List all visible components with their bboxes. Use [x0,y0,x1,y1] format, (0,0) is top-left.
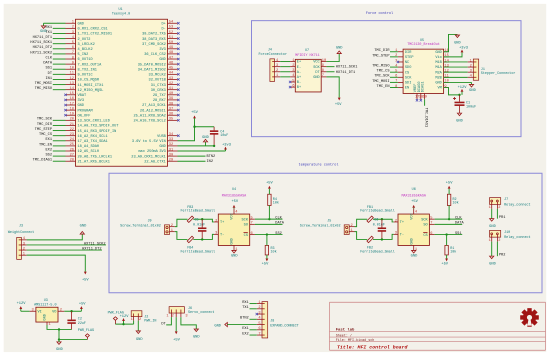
svg-text:28_RX7: 28_RX7 [153,99,166,103]
power +5V at U1 VIN [191,111,198,119]
svg-text:35_DAT0_MOSI2: 35_DAT0_MOSI2 [138,63,166,67]
svg-text:EX1: EX1 [46,138,52,142]
junction at C6 top [381,218,383,220]
capacitor C1 100uF [453,95,476,113]
svg-text:2: 2 [395,219,397,223]
svg-text:TMC_SCK: TMC_SCK [37,118,53,122]
wire J6 pin2 to +5V [175,317,177,331]
svg-text:3V3: 3V3 [78,99,84,103]
svg-text:10_CS_MQSR: 10_CS_MQSR [78,79,100,83]
wire U1 pin7 HX711_SCK2 [53,53,66,55]
wire U6 SO DATA [435,223,463,225]
connector J3 WeightConnect [8,225,34,260]
svg-text:31_CTX3: 31_CTX3 [151,84,166,88]
junction CLK/R4 [268,218,270,220]
svg-text:TMC_SCK: TMC_SCK [374,75,390,79]
junction SS2/R3 [266,233,268,235]
wire +5V branch to C4 [195,126,215,128]
power +12V at J2 [120,315,130,324]
svg-text:3: 3 [292,69,294,73]
wire U1 pin29 IN2 [178,160,206,162]
svg-text:SDI: SDI [405,82,411,86]
svg-text:M1A: M1A [435,66,442,70]
svg-text:100uF: 100uF [466,106,476,110]
svg-text:GND: GND [489,262,496,266]
svg-text:CLK: CLK [275,216,282,220]
svg-text:2: 2 [292,64,294,68]
svg-text:15: 15 [444,54,448,58]
svg-text:0.01uF: 0.01uF [193,223,205,227]
svg-text:0.01uF: 0.01uF [373,223,385,227]
wire U7 SCK [326,66,334,68]
svg-text:0_RX1_CRX2_CS1: 0_RX1_CRX2_CS1 [78,28,108,32]
resistor R3 10k [265,235,276,259]
svg-text:+5V: +5V [262,263,269,267]
svg-text:5: 5 [72,41,74,45]
svg-text:IN2: IN2 [207,160,213,164]
power +5V above R2 [446,181,453,188]
svg-text:38: 38 [169,102,173,106]
wire U1 pin8 CLK [53,58,66,60]
junction at C4 bottom [213,145,215,147]
svg-text:13_SCK_CRX1_LED: 13_SCK_CRX1_LED [78,120,110,124]
power +5V above U6 [411,200,418,209]
svg-text:D+: D+ [161,22,165,26]
svg-text:25: 25 [70,143,74,147]
ground below C1 [456,113,463,124]
svg-text:27: 27 [70,153,74,157]
svg-text:TMC_DIR: TMC_DIR [37,123,53,127]
svg-text:23: 23 [70,133,74,137]
svg-text:J10: J10 [504,231,510,235]
junction at U3 ground rail [58,328,60,330]
svg-text:2: 2 [215,219,217,223]
junction at ground rail [58,338,60,340]
svg-text:EX1: EX1 [242,327,248,331]
ground right of U5 [454,34,461,45]
svg-text:A-: A- [297,71,301,75]
svg-text:TMC_DIAG1: TMC_DIAG1 [423,108,427,127]
wire U1 pin1 GND [44,22,66,24]
svg-text:TMC2130_BreakOut: TMC2130_BreakOut [407,42,440,47]
svg-text:29_TX7: 29_TX7 [153,94,166,98]
junction SS1/R1 [445,233,447,235]
svg-text:6: 6 [292,84,294,88]
svg-text:24: 24 [70,138,75,142]
svg-text:+12V: +12V [17,302,27,306]
svg-text:Screw_Terminal_01x02: Screw_Terminal_01x02 [120,224,161,229]
svg-text:2: 2 [470,64,472,68]
svg-text:GND: GND [44,314,48,320]
resistor R1 10k [445,235,456,259]
wire U7 VCC to GND symbol [326,54,339,62]
wire U1 pin25 TMC_EN [53,145,66,147]
svg-text:22: 22 [70,128,74,132]
svg-text:7: 7 [430,222,432,226]
wire J4 to U7 A- [280,71,290,73]
svg-text:10k: 10k [453,200,459,205]
svg-text:DATA: DATA [43,62,52,66]
wire FB1 to T+ [373,219,394,222]
svg-text:2: 2 [395,54,397,58]
svg-text:2: 2 [23,247,25,251]
wire U1 pin11 DT [53,73,66,75]
svg-text:GND: GND [78,104,84,108]
svg-text:GND: GND [435,51,441,55]
svg-text:9_OUT1C: 9_OUT1C [78,74,93,78]
power +5V below J6 [173,331,180,342]
wire U3 VO to +5V [64,310,81,312]
svg-text:32_OUT1B: 32_OUT1B [149,79,167,83]
svg-text:DIR: DIR [405,51,412,55]
svg-text:Servo_connect: Servo_connect [188,310,214,315]
ferrite bead FB2 [360,236,395,254]
wire U5 GND pin10 to ground [444,81,472,83]
svg-text:GND: GND [454,42,461,46]
svg-text:GND: GND [78,22,84,26]
svg-text:2: 2 [72,26,74,30]
svg-text:GND: GND [410,238,414,244]
svg-text:+5V: +5V [82,279,89,283]
svg-text:M2B: M2B [435,76,442,80]
junction at C6 bottom [381,238,383,240]
svg-text:21: 21 [70,123,75,127]
svg-text:GND: GND [214,325,221,329]
svg-text:21_A7_RX5_BCLK1: 21_A7_RX5_BCLK1 [78,160,110,164]
svg-text:GND: GND [80,225,87,229]
svg-text:12: 12 [444,69,448,73]
ground at U1 pin1 [40,23,47,34]
svg-text:3: 3 [23,242,25,246]
svg-text:TMC_MISO: TMC_MISO [372,64,389,68]
svg-text:TMC_CS: TMC_CS [39,133,52,137]
svg-text:Relay_connect: Relay_connect [504,235,530,240]
svg-text:GND: GND [231,238,235,244]
svg-text:DATA: DATA [455,222,464,226]
svg-text:12_MISO_MQSL: 12_MISO_MQSL [78,89,104,93]
svg-text:FerriteBead_Small: FerriteBead_Small [360,209,395,214]
svg-text:U3: U3 [44,299,48,303]
svg-text:Stepper_Connector: Stepper_Connector [481,71,516,76]
wire U3 GND to C2 bottom [47,325,72,330]
svg-text:37: 37 [169,107,173,111]
svg-text:TMC_MOSI: TMC_MOSI [35,82,52,86]
IC U1 Teensy4.0 [76,8,168,166]
svg-text:FerriteBead_Small: FerriteBead_Small [360,249,395,254]
svg-text:+5V: +5V [411,200,418,204]
svg-text:36_CLK_CS2: 36_CLK_CS2 [144,53,166,57]
ground below U4 [231,250,238,258]
svg-text:WeightConnect: WeightConnect [8,230,34,235]
svg-text:48: 48 [169,51,173,55]
svg-text:6_OUT1D: 6_OUT1D [78,58,93,62]
svg-text:38_DAT3_RX5: 38_DAT3_RX5 [142,38,166,42]
svg-text:46: 46 [169,61,173,65]
wire J10 pin2 PR2 [496,242,498,257]
wire U1 GND pin to C4 [178,145,215,147]
wire U1 pin3 TX1 [53,32,66,34]
wire U1 pin14 TMC_MISO [53,89,66,91]
junction at C5 bottom [201,238,203,240]
wire U1 pin10 SS1 [53,68,66,70]
svg-text:GND: GND [313,76,319,80]
wire U5 Vio to +3V3 [444,52,462,56]
svg-text:PROGRAM: PROGRAM [78,109,93,113]
svg-text:E+: E+ [297,61,301,65]
svg-text:+5V: +5V [335,103,342,107]
svg-text:D-: D- [161,28,165,32]
svg-text:+5V: +5V [173,338,180,342]
svg-text:10k: 10k [271,249,277,254]
connector J8 EXPAND_CONNECT [257,301,299,338]
svg-text:SS1: SS1 [46,67,52,71]
wire U1 pin6 HX711_DT2 [53,48,66,50]
svg-text:22uF: 22uF [78,322,86,326]
svg-text:GND: GND [202,136,209,140]
svg-text:TX1: TX1 [46,31,52,35]
wire U7 DT [326,71,334,73]
svg-text:17_A3_TX4_SDA1: 17_A3_TX4_SDA1 [78,140,108,144]
wire +12V to U3 VI [21,310,30,312]
svg-text:+12V: +12V [458,86,468,90]
svg-text:U6: U6 [412,188,416,192]
svg-text:GND: GND [159,58,165,62]
svg-text:TMC_STEP: TMC_STEP [372,54,389,58]
svg-text:5: 5 [430,216,432,220]
svg-text:U7: U7 [305,49,309,53]
svg-text:TMC_EN: TMC_EN [39,143,52,147]
capacitor C4 [210,127,228,146]
svg-text:HX711_DT2: HX711_DT2 [33,46,52,50]
resistor R4 10k [268,189,279,220]
svg-text:J3: J3 [19,225,23,229]
U1 right pins 34-29 [131,133,179,164]
power +5V below J3 wire [82,272,89,283]
svg-text:11: 11 [70,72,75,76]
wire U5 TMC_DIR [390,51,398,53]
svg-text:BTN2: BTN2 [240,317,249,321]
ground below J6 [193,329,200,340]
svg-text:PWR_IN: PWR_IN [144,320,156,324]
svg-text:19: 19 [70,113,74,117]
svg-text:J9: J9 [148,219,152,223]
svg-text:E-: E- [297,66,301,70]
junction at C1 top [458,94,460,96]
svg-text:GND: GND [336,46,343,50]
connector J4 ForceConnector [259,48,288,81]
svg-text:39_DAT2_TX5: 39_DAT2_TX5 [142,33,166,37]
svg-text:GND: GND [159,145,165,149]
svg-text:10k: 10k [450,249,456,254]
svg-text:8: 8 [395,85,397,89]
svg-text:NC: NC [405,61,409,65]
wire U1 pin9 DATA [53,63,66,65]
svg-text:SCK: SCK [405,76,412,80]
svg-text:GND: GND [136,338,143,342]
svg-text:SS1: SS1 [455,232,461,236]
wire J3 HX711_SCK2 [27,244,106,246]
wire J4 to U7 A+ [280,76,290,78]
wire U5 TMC_SCK [390,76,398,78]
wire ground to J8 pin5 [227,324,256,326]
svg-text:39: 39 [169,97,173,101]
svg-text:22_A8_CTX1: 22_A8_CTX1 [144,160,166,164]
svg-text:2: 2 [171,224,173,228]
svg-text:5: 5 [251,216,253,220]
svg-text:11_MOSI_CTX1: 11_MOSI_CTX1 [78,84,104,88]
svg-text:4_BCLK2: 4_BCLK2 [78,48,93,52]
svg-text:14: 14 [70,87,75,91]
svg-text:42: 42 [169,82,173,86]
svg-text:Screw_Terminal_01x02: Screw_Terminal_01x02 [300,224,341,229]
svg-text:24_A10_TX8_SCL2: 24_A10_TX8_SCL2 [133,120,165,124]
svg-text:14_A0_TX3_SPDIF_OUT: 14_A0_TX3_SPDIF_OUT [78,125,120,129]
svg-text:J8: J8 [270,319,274,323]
ground above U7 [336,46,343,53]
svg-text:25_A11_RX8_SDA2: 25_A11_RX8_SDA2 [133,114,165,118]
ferrite bead FB4 [181,236,216,254]
svg-text:37_CMD_SCK2: 37_CMD_SCK2 [142,43,166,47]
svg-text:13: 13 [444,64,448,68]
ground at J8 pin5 wire [214,322,227,328]
svg-text:T+: T+ [220,221,224,225]
wire J6 pin3 to ground [181,317,196,329]
logo KiCad gear [520,308,539,327]
svg-text:47: 47 [169,56,173,60]
svg-text:3V3: 3V3 [159,48,165,52]
ferrite bead FB3 [181,206,216,223]
svg-text:3V3: 3V3 [159,150,165,154]
svg-text:HX711_SCK1: HX711_SCK1 [30,41,52,45]
svg-text:50: 50 [169,41,173,45]
hierarchical box temperature control [109,173,542,293]
svg-text:17: 17 [70,102,74,106]
svg-text:2: 2 [60,308,62,312]
svg-text:C6: C6 [374,219,378,223]
svg-text:34: 34 [169,133,174,137]
IC U4 MAX31855KASA [214,188,255,252]
svg-text:GND: GND [56,348,63,352]
svg-text:+3v3: +3v3 [459,47,468,51]
wire U5 TMC_MISO [390,66,398,68]
svg-text:HX711_DT1: HX711_DT1 [336,71,355,75]
ground at U5 pin10 [469,82,476,92]
svg-text:7: 7 [251,222,253,226]
svg-text:2: 2 [172,314,174,318]
svg-text:49: 49 [169,46,173,50]
svg-text:ForceConnector: ForceConnector [259,52,288,57]
svg-text:2: 2 [258,306,260,310]
wire J6 pin1 DT [166,317,171,325]
svg-text:Fast lab: Fast lab [336,327,355,332]
junction at J2 +12V [122,323,124,325]
svg-text:B+: B+ [297,86,301,90]
wire J8 EX1 [250,329,257,331]
wire U5 TMC_STEP [390,56,398,58]
wire U5 TMC_CS [390,71,398,73]
svg-text:+5V: +5V [441,263,448,267]
svg-text:A+: A+ [297,76,301,80]
svg-text:CS: CS [423,234,427,238]
svg-text:TMC_MISO: TMC_MISO [35,87,52,91]
power +5V below U7 [335,98,342,107]
svg-text:IN1: IN1 [46,77,52,81]
svg-text:Vio: Vio [435,55,441,60]
svg-text:SS2: SS2 [275,232,281,236]
svg-text:5: 5 [292,79,294,83]
svg-text:5: 5 [395,69,397,73]
power +12V at C1 [458,86,468,95]
connector J6 Servo_connect [166,307,214,319]
svg-text:TMC_DIAG1: TMC_DIAG1 [33,159,52,163]
junction CLK/R2 [448,218,450,220]
svg-text:VCC: VCC [231,213,235,219]
svg-text:1_TX1_CTX2_MISO1: 1_TX1_CTX2_MISO1 [78,33,113,37]
svg-text:44: 44 [169,72,174,76]
svg-text:40: 40 [169,92,173,96]
junction at C5 top [201,218,203,220]
connector J5 Screw_Terminal_01x02 [300,219,355,234]
ground above J3 wire [80,225,87,235]
svg-text:5_IN2: 5_IN2 [78,53,89,57]
wire U1 pin12 IN1 [53,78,66,80]
power +3V3 right of U5 [459,47,468,53]
power flag PWR_FLAG at J2 [113,317,117,324]
svg-text:+3v3: +3v3 [222,143,231,147]
svg-text:temperature control: temperature control [299,163,339,168]
capacitor C5 0.01uF [193,219,206,240]
wire J7 pin2 PR1 [496,209,498,219]
svg-text:MAX31855KASA: MAX31855KASA [222,194,247,198]
svg-text:18: 18 [70,107,74,111]
svg-text:CS: CS [405,71,409,75]
svg-text:VM: VM [437,87,441,91]
wire U4 SO DATA [255,223,283,225]
svg-text:10: 10 [322,59,326,63]
svg-text:TX1: TX1 [242,306,248,310]
svg-text:3: 3 [258,311,260,315]
wire U6 CS SS1 [435,234,463,236]
svg-text:CLK: CLK [46,56,53,60]
wire J2 pin2 to ground [137,321,139,331]
svg-text:GND: GND [193,336,200,340]
wire U1 pin30 BTN2 [178,155,206,157]
junction at +5V/C4 branch [193,126,195,128]
svg-text:DIAG1: DIAG1 [422,81,426,92]
svg-text:32: 32 [169,143,173,147]
svg-text:J4: J4 [268,48,272,52]
svg-text:6: 6 [258,327,260,331]
svg-text:7_RX2_OUT1A: 7_RX2_OUT1A [78,63,103,67]
wire J8 TX1 [250,308,257,310]
wire ground rail down [58,329,60,339]
svg-text:30: 30 [169,153,173,157]
power +12V at U3 input [17,302,27,312]
U5 no-connect bottom pins [416,99,422,101]
svg-text:GND: GND [411,254,418,258]
wire FB4 to T- [193,234,214,239]
svg-text:VO: VO [52,311,56,315]
svg-text:C5: C5 [195,219,199,223]
wire U1 3V3 to +3V3 [178,150,226,152]
svg-text:CS: CS [244,234,248,238]
U1 left pins 1-28 [66,21,120,165]
svg-text:14: 14 [444,59,449,63]
wire J8 EX2 [250,334,257,336]
ground below J10 [489,256,496,266]
svg-text:3: 3 [72,31,74,35]
svg-text:7: 7 [258,332,260,336]
